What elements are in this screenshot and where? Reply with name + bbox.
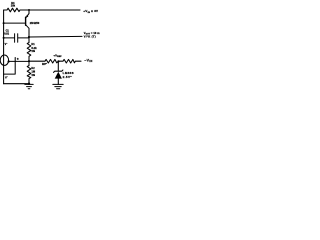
node VREF [57,60,59,62]
svg-text:R3*: R3* [42,62,48,66]
wire meter loop [4,58,16,75]
svg-text:1%: 1% [31,50,35,53]
resistor R3 [29,59,59,63]
resistor R4 [4,8,20,12]
resistor R1 6.2k [27,37,31,61]
capacitor C1 [4,34,29,42]
diode D1 LM336 [54,61,63,84]
svg-text:−VIN: −VIN [84,59,92,64]
svg-text:R2: R2 [31,67,35,70]
transistor Q1 2N4250 [26,10,29,37]
node meter [8,60,10,62]
node emitter [28,9,30,11]
svg-text:1%: 1% [31,74,35,77]
node R1-R2 [28,60,30,62]
wire left rail [3,10,5,84]
node ground [28,83,30,85]
node base [3,22,5,24]
svg-text:0.01: 0.01 [4,32,9,35]
svg-text:V−: V− [5,42,8,46]
ground [25,84,33,89]
resistor R5 [59,59,82,63]
svg-text:2N4250: 2N4250 [30,21,40,25]
svg-text:10k: 10k [11,4,16,8]
svg-text:+VIN ≥ 3V: +VIN ≥ 3V [83,9,98,14]
ground [53,84,63,88]
node C1 [3,37,5,39]
wire base lead [4,22,26,24]
wire output [29,35,82,38]
wire top rail [20,9,80,11]
meter M1 [0,55,8,65]
svg-text:V−: V− [5,75,9,79]
svg-text:V/°K (T): V/°K (T) [84,35,96,39]
svg-text:1M: 1M [31,70,35,74]
svg-text:2.5V*: 2.5V* [63,75,73,79]
wire bottom rail [4,83,29,85]
wire meter tap [9,60,29,62]
svg-text:+VREF: +VREF [53,53,62,58]
node collector [28,36,30,38]
svg-text:*: * [17,57,19,62]
resistor R2 1M [27,61,31,83]
svg-text:R1: R1 [31,43,35,46]
